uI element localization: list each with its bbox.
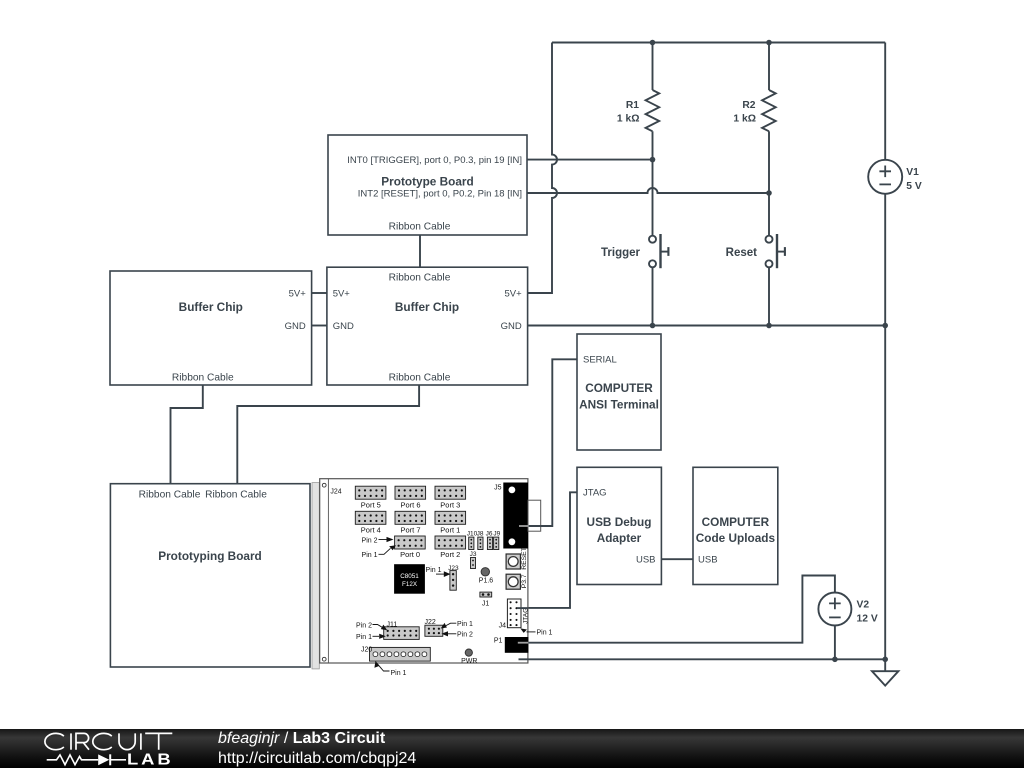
jumper J23 xyxy=(448,565,459,590)
svg-text:Ribbon Cable: Ribbon Cable xyxy=(389,222,451,233)
pin label Pin 1 of J11 xyxy=(356,634,386,641)
CircuitLab logo xyxy=(0,729,210,768)
svg-text:PWR: PWR xyxy=(461,658,477,665)
node INT0/R1 junction xyxy=(650,157,656,163)
jumper J3 xyxy=(470,551,477,569)
svg-text:Port 2: Port 2 xyxy=(440,550,460,559)
svg-text:Buffer Chip: Buffer Chip xyxy=(395,300,459,314)
svg-text:Prototyping Board: Prototyping Board xyxy=(158,549,262,563)
wire right rail V1 minus down to ground xyxy=(884,326,886,672)
svg-text:RESET: RESET xyxy=(521,547,528,570)
svg-text:J5: J5 xyxy=(494,485,502,492)
header Port 4 xyxy=(355,511,386,534)
svg-text:Pin 2: Pin 2 xyxy=(457,632,473,639)
svg-text:Ribbon Cable: Ribbon Cable xyxy=(205,489,267,500)
header J20 xyxy=(361,647,430,662)
svg-text:Pin 1: Pin 1 xyxy=(426,567,442,574)
svg-text:5 V: 5 V xyxy=(906,181,922,192)
wire SERIAL from terminal to board J5 xyxy=(528,359,577,526)
svg-text:1 kΩ: 1 kΩ xyxy=(617,114,640,125)
block COMPUTER ANSI Terminal xyxy=(577,334,661,450)
svg-text:J20: J20 xyxy=(361,647,372,654)
svg-text:JTAG: JTAG xyxy=(583,488,607,499)
svg-text:Pin 2: Pin 2 xyxy=(362,537,378,544)
svg-text:GND: GND xyxy=(501,321,522,332)
block Buffer Chip left xyxy=(110,271,312,385)
svg-text:Port 1: Port 1 xyxy=(440,525,460,534)
svg-text:INT0 [TRIGGER], port 0, P0.3,: INT0 [TRIGGER], port 0, P0.3, pin 19 [IN… xyxy=(347,155,522,166)
svg-text:Ribbon Cable: Ribbon Cable xyxy=(139,489,201,500)
svg-text:J4: J4 xyxy=(499,622,507,629)
node GND reset junction xyxy=(766,323,772,329)
svg-text:USB Debug: USB Debug xyxy=(587,515,652,529)
wire INT2 from prototype board to R2 with hop xyxy=(527,188,769,193)
button P3.7 xyxy=(506,574,528,589)
svg-text:GND: GND xyxy=(333,321,354,332)
node top rail R1 junction xyxy=(650,40,656,46)
node bottom rail junction xyxy=(882,657,888,663)
pin label Pin 1 of J23 xyxy=(426,567,451,577)
header Port 0 xyxy=(395,536,426,559)
block COMPUTER Code Uploads xyxy=(693,467,778,584)
wire R1 junction down to trigger switch xyxy=(652,160,654,236)
chip U1 C8051F12X xyxy=(394,564,425,594)
svg-text:LAB: LAB xyxy=(127,749,173,768)
svg-text:Pin 1: Pin 1 xyxy=(391,670,407,677)
voltage source V1 5V xyxy=(868,43,922,326)
block Prototype Board xyxy=(328,135,527,235)
switch SW Trigger xyxy=(601,234,668,268)
svg-text:P3.7: P3.7 xyxy=(521,574,528,588)
svg-text:Port 4: Port 4 xyxy=(361,525,381,534)
wire prototype board to buffer chip ribbon cable xyxy=(419,235,421,267)
pin label Pin 1 of J4 xyxy=(520,628,552,636)
header Port 2 xyxy=(435,536,466,559)
pin label Pin 2 of J22 xyxy=(441,631,473,638)
svg-text:Pin 2: Pin 2 xyxy=(356,622,372,629)
wire USB between adapter and computer xyxy=(661,558,693,560)
node V2 bottom junction xyxy=(832,657,838,663)
svg-text:Pin 1: Pin 1 xyxy=(356,634,372,641)
connector J5 serial xyxy=(494,483,528,549)
svg-text:J6: J6 xyxy=(486,530,493,537)
svg-text:INT2 [RESET], port 0, P0.2, Pi: INT2 [RESET], port 0, P0.2, Pin 18 [IN] xyxy=(358,189,522,200)
svg-text:R2: R2 xyxy=(742,100,755,111)
svg-text:USB: USB xyxy=(698,555,718,566)
led P1.6 xyxy=(479,568,494,585)
header Port 7 xyxy=(395,511,426,534)
wire top 5V rail xyxy=(552,42,885,44)
svg-text:Pin 1: Pin 1 xyxy=(537,630,553,637)
jumper J8 xyxy=(477,530,484,549)
svg-text:C8051: C8051 xyxy=(400,573,419,580)
wire JTAG segment on board to J4 xyxy=(517,607,528,609)
svg-text:Ribbon Cable: Ribbon Cable xyxy=(172,372,234,383)
pin label Pin 1 of J20 xyxy=(374,661,406,677)
block Prototyping Board xyxy=(110,484,310,667)
resistor R1 xyxy=(617,43,659,160)
wire bottom GND segment on board xyxy=(519,658,529,660)
svg-text:Prototype Board: Prototype Board xyxy=(381,175,473,189)
jumper J6 xyxy=(486,530,493,549)
svg-text:Port 6: Port 6 xyxy=(400,500,420,509)
svg-text:Ribbon Cable: Ribbon Cable xyxy=(389,272,451,283)
svg-text:1 kΩ: 1 kΩ xyxy=(733,114,756,125)
wire right buffer chip to prototyping board xyxy=(237,385,419,484)
wire trigger switch to GND rail xyxy=(652,267,654,325)
block USB Debug Adapter xyxy=(577,467,661,584)
svg-text:COMPUTER: COMPUTER xyxy=(585,381,653,395)
wire serial across protrusion xyxy=(529,525,553,527)
header Port 1 xyxy=(435,511,466,534)
header J22 xyxy=(425,619,443,637)
led PWR xyxy=(461,649,477,665)
jumper J9 xyxy=(493,530,500,549)
connector J5 D-sub protrusion xyxy=(528,500,541,531)
wire GND rail from buffer chip to V1 xyxy=(528,325,886,327)
node INT2/R2 junction xyxy=(766,190,772,196)
svg-text:V1: V1 xyxy=(906,167,919,178)
wire left buffer chip to prototyping board xyxy=(171,385,203,484)
header J11 xyxy=(384,622,420,640)
svg-text:Port 0: Port 0 xyxy=(400,550,420,559)
svg-text:R1: R1 xyxy=(626,100,639,111)
jumper J1 xyxy=(480,592,492,607)
pin label Pin 1 of Port 0 xyxy=(362,545,396,559)
svg-text:Trigger: Trigger xyxy=(601,247,641,259)
voltage source V2 12V xyxy=(818,593,877,626)
svg-text:Buffer Chip: Buffer Chip xyxy=(179,300,243,314)
svg-text:Ribbon Cable: Ribbon Cable xyxy=(389,372,451,383)
svg-text:5V+: 5V+ xyxy=(333,289,351,300)
svg-text:J3: J3 xyxy=(470,551,477,558)
svg-text:Code Uploads: Code Uploads xyxy=(696,531,776,545)
svg-text:JTAG: JTAG xyxy=(523,608,530,624)
ground symbol xyxy=(872,671,898,685)
svg-text:Reset: Reset xyxy=(726,247,757,259)
dev board left edge strip J24 xyxy=(322,479,341,663)
wire JTAG from adapter to board J4 xyxy=(519,492,577,608)
svg-text:Pin 1: Pin 1 xyxy=(362,552,378,559)
svg-text:12 V: 12 V xyxy=(857,613,878,624)
pin label Pin 2 of J11 xyxy=(356,622,387,630)
svg-text:5V+: 5V+ xyxy=(505,289,523,300)
svg-text:GND: GND xyxy=(285,321,306,332)
svg-text:V2: V2 xyxy=(857,600,870,611)
wire 5V+ from buffer chip up left rail with hops xyxy=(528,43,557,294)
connector P1 power xyxy=(494,637,529,653)
svg-text:J24: J24 xyxy=(330,489,341,496)
svg-text:J9: J9 xyxy=(493,530,500,537)
header J4 JTAG xyxy=(499,599,530,629)
resistor R2 xyxy=(733,43,775,194)
svg-text:USB: USB xyxy=(636,555,656,566)
wire reset switch to GND rail xyxy=(768,267,770,325)
node GND trigger junction xyxy=(650,323,656,329)
wire 5V+ between buffer chips xyxy=(312,292,327,294)
switch SW Reset xyxy=(726,234,785,268)
wire V2 plus to board P1 power xyxy=(528,576,835,643)
svg-text:COMPUTER: COMPUTER xyxy=(702,515,770,529)
wire bottom GND rail from board to ground xyxy=(519,658,886,660)
wire R2 junction down to reset switch xyxy=(768,193,770,236)
svg-text:Port 5: Port 5 xyxy=(361,500,381,509)
svg-text:Port 3: Port 3 xyxy=(440,500,460,509)
svg-text:5V+: 5V+ xyxy=(289,289,307,300)
svg-text:Pin 1: Pin 1 xyxy=(457,621,473,628)
block Buffer Chip right xyxy=(327,267,528,385)
ribbon cable connector strip xyxy=(312,483,319,669)
svg-text:SERIAL: SERIAL xyxy=(583,355,617,366)
svg-text:Adapter: Adapter xyxy=(597,531,642,545)
wire INT0 from prototype board to R1 xyxy=(527,159,653,161)
node GND V1 junction xyxy=(882,323,888,329)
header Port 5 xyxy=(355,486,386,509)
svg-text:F12X: F12X xyxy=(402,581,418,588)
svg-text:P1.6: P1.6 xyxy=(479,578,494,585)
jumper J10 xyxy=(467,530,478,549)
svg-text:J8: J8 xyxy=(477,530,484,537)
button RESET xyxy=(506,547,528,570)
header Port 3 xyxy=(435,486,466,509)
wire V2 minus to bottom GND rail xyxy=(834,626,836,660)
pin label Pin 1 of J22 xyxy=(441,621,473,629)
svg-text:Port 7: Port 7 xyxy=(400,525,420,534)
dev board outline xyxy=(320,479,528,663)
header Port 6 xyxy=(395,486,426,509)
wire GND between buffer chips xyxy=(312,325,327,327)
footer text xyxy=(218,729,416,768)
svg-text:J1: J1 xyxy=(482,601,490,608)
node top rail R2 junction xyxy=(766,40,772,46)
wire serial inside J5 xyxy=(519,525,529,527)
svg-text:P1: P1 xyxy=(494,638,503,645)
svg-text:ANSI Terminal: ANSI Terminal xyxy=(579,398,659,412)
pin label Pin 2 of Port 0 xyxy=(362,537,394,544)
